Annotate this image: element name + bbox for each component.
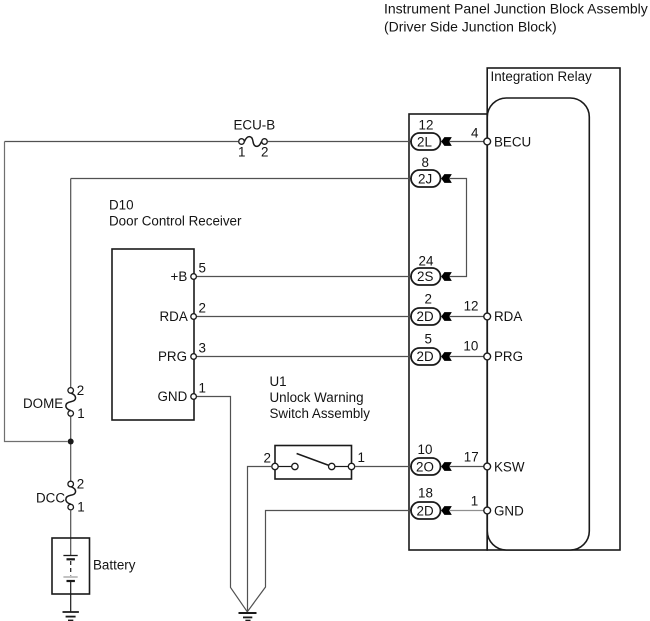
connector 2L [411, 118, 441, 151]
wire switch left to ground [248, 467, 272, 612]
svg-text:Unlock Warning: Unlock Warning [270, 390, 364, 405]
svg-text:Integration Relay: Integration Relay [491, 69, 593, 84]
svg-text:GND: GND [494, 504, 524, 519]
svg-text:Switch Assembly: Switch Assembly [270, 406, 371, 421]
arrow 2D RDA [441, 312, 452, 321]
node junction dot [68, 439, 74, 445]
svg-text:ECU-B: ECU-B [234, 118, 276, 133]
svg-text:2J: 2J [418, 172, 432, 187]
connector 2J [411, 155, 441, 187]
svg-text:3: 3 [199, 341, 206, 356]
svg-text:2S: 2S [417, 269, 433, 284]
pin 10 PRG [463, 339, 523, 365]
svg-text:Instrument Panel Junction Bloc: Instrument Panel Junction Block Assembly [384, 0, 648, 16]
svg-text:Door Control Receiver: Door Control Receiver [109, 214, 242, 229]
svg-text:+B: +B [171, 269, 188, 284]
pin 2 RDA [160, 301, 206, 325]
fuse ECU-B [234, 118, 276, 160]
svg-text:2L: 2L [417, 135, 432, 150]
wire RDA to 2D [197, 316, 411, 318]
wire battery to ground [70, 594, 72, 612]
svg-text:PRG: PRG [158, 349, 187, 364]
arrow 2D GND [441, 506, 452, 515]
wire KSW relay [449, 466, 484, 468]
wire BECU [449, 141, 484, 143]
pin 5 +B [171, 261, 206, 285]
relay body rounded rect [487, 98, 589, 550]
switch contacts [264, 450, 365, 470]
arrow 2D PRG [441, 352, 452, 361]
svg-text:DCC: DCC [36, 491, 65, 506]
pin 12 RDA [464, 299, 523, 325]
switch box [275, 446, 352, 480]
svg-text:4: 4 [471, 126, 479, 141]
svg-text:1: 1 [77, 406, 84, 421]
pin 3 PRG [158, 341, 206, 365]
wire GND relay [449, 510, 484, 512]
svg-text:RDA: RDA [494, 309, 522, 324]
svg-text:18: 18 [418, 486, 433, 501]
svg-text:BECU: BECU [494, 135, 531, 150]
U1 Unlock Warning Switch Assembly [270, 374, 371, 421]
svg-text:2: 2 [264, 451, 271, 466]
svg-text:U1: U1 [270, 374, 287, 389]
ground center [239, 613, 257, 621]
battery [52, 538, 136, 594]
wire RDA relay [449, 316, 484, 318]
svg-text:D10: D10 [109, 198, 134, 213]
svg-text:5: 5 [199, 261, 206, 276]
pin 4 BECU [471, 126, 531, 150]
wire ECU-B left feed [5, 141, 239, 143]
svg-text:1: 1 [471, 494, 478, 509]
svg-text:8: 8 [422, 155, 429, 170]
fuse DOME [23, 383, 85, 421]
svg-text:17: 17 [464, 450, 479, 465]
svg-text:(Driver Side Junction Block): (Driver Side Junction Block) [384, 18, 557, 34]
wire DCC to battery [70, 510, 72, 556]
arrow 2L [441, 137, 452, 146]
svg-text:2: 2 [425, 292, 432, 307]
svg-text:1: 1 [199, 381, 206, 396]
arrow 2J [441, 174, 452, 183]
wire switch to 2O [355, 466, 411, 468]
svg-text:PRG: PRG [494, 349, 523, 364]
wire DOME to junction [70, 416, 72, 481]
connector 2O [411, 442, 441, 475]
svg-text:5: 5 [425, 332, 432, 347]
svg-text:KSW: KSW [494, 460, 525, 475]
svg-text:2D: 2D [417, 349, 434, 364]
arrow 2S [441, 272, 452, 281]
svg-text:10: 10 [418, 442, 433, 457]
svg-text:1: 1 [77, 500, 84, 515]
wire PRG to 2D [197, 356, 411, 358]
fuse DCC [36, 477, 85, 515]
svg-text:2O: 2O [416, 460, 434, 475]
svg-text:Battery: Battery [93, 558, 136, 573]
pin 1 GND relay [471, 494, 524, 519]
junction block box [409, 114, 487, 550]
svg-text:GND: GND [158, 389, 188, 404]
wire relay GND row to ground [247, 511, 411, 612]
svg-text:1: 1 [358, 450, 365, 465]
ground battery [63, 612, 79, 621]
connector 2D row RDA [411, 292, 441, 326]
svg-text:2: 2 [77, 383, 84, 398]
svg-text:2: 2 [261, 145, 268, 160]
wire fuse to 2L [268, 141, 411, 143]
wire GND down to ground [197, 397, 247, 612]
D10 Door Control Receiver box [109, 198, 242, 421]
pin 17 KSW [464, 450, 525, 475]
connector 2D row PRG [411, 332, 441, 366]
svg-text:2: 2 [77, 477, 84, 492]
svg-text:2D: 2D [417, 504, 434, 519]
wire left edge down [5, 142, 68, 442]
svg-text:1: 1 [238, 145, 245, 160]
title Instrument Panel Junction Block Assembly [384, 0, 648, 34]
svg-text:24: 24 [419, 254, 434, 269]
arrow 2O [441, 462, 452, 471]
wire DOME to 2J row [71, 179, 411, 388]
wire PRG relay [449, 356, 484, 358]
svg-text:12: 12 [464, 299, 479, 314]
wire 2J to 2S [449, 179, 467, 277]
svg-text:12: 12 [419, 118, 434, 133]
svg-text:2: 2 [199, 301, 206, 316]
svg-text:RDA: RDA [160, 309, 188, 324]
connector 2S [411, 254, 441, 286]
integration relay box [487, 68, 620, 550]
svg-text:2D: 2D [417, 309, 434, 324]
svg-text:10: 10 [463, 339, 478, 354]
connector 2D row GND [411, 486, 441, 520]
pin 1 GND [158, 381, 206, 405]
wire +B to 2S [197, 276, 411, 278]
svg-text:DOME: DOME [23, 396, 63, 411]
